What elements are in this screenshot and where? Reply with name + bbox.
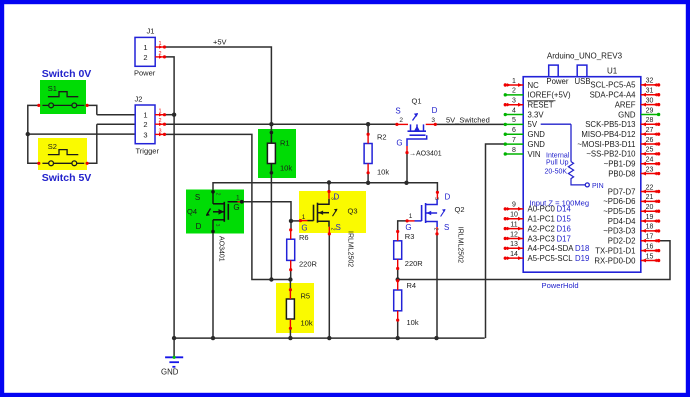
pin 4 3.3V bbox=[505, 114, 523, 116]
switch S2 bbox=[42, 162, 48, 164]
svg-text:29: 29 bbox=[646, 107, 654, 114]
svg-text:2: 2 bbox=[329, 228, 335, 231]
svg-text:Trigger: Trigger bbox=[136, 147, 160, 156]
svg-text:3: 3 bbox=[433, 197, 439, 200]
svg-text:G: G bbox=[396, 139, 402, 148]
resistor R4 bbox=[394, 290, 402, 311]
highlight box R1 bbox=[258, 129, 296, 178]
node plus5V/R1 junction bbox=[269, 122, 273, 126]
pin 22 PD7-D7 bbox=[641, 191, 659, 193]
svg-text:2: 2 bbox=[158, 118, 161, 124]
node R1 bottom trigger junction bbox=[269, 277, 273, 281]
svg-text:1: 1 bbox=[158, 109, 161, 115]
svg-text:3: 3 bbox=[330, 197, 336, 200]
pin 27 MISO-PB4-D12 bbox=[641, 133, 659, 135]
svg-text:2: 2 bbox=[158, 51, 161, 57]
pin 9 A0-PC0 bbox=[505, 208, 523, 210]
wire row3 into J2 left bbox=[28, 133, 135, 135]
svg-text:10k: 10k bbox=[377, 168, 389, 177]
svg-text:Power: Power bbox=[546, 77, 569, 86]
pin 21 ~PD6-D6 bbox=[641, 200, 659, 202]
svg-text:7: 7 bbox=[512, 137, 516, 144]
wire trigger from J2 pin3 to R5/R6 junction bbox=[164, 134, 291, 279]
wire ground symbol drop bbox=[173, 338, 175, 356]
pin 15 RX-PD0-D0 bbox=[641, 259, 659, 261]
pin 23 PB0-D8 bbox=[641, 173, 659, 175]
wire Q2 gate to R3 top bbox=[398, 221, 407, 233]
wire 5V_Switched wire Q1 drain to Arduino pin5 bbox=[435, 123, 505, 125]
svg-text:26: 26 bbox=[646, 137, 654, 144]
wire row1 into J2 left bbox=[97, 114, 135, 116]
op-amp U1 Arduino_UNO_REV3 block bbox=[523, 77, 641, 273]
node switch left / row3 junction bbox=[26, 132, 30, 136]
pin 1 NC bbox=[505, 84, 523, 86]
pin 28 SCK-PB5-D13 bbox=[641, 123, 659, 125]
svg-text:GND: GND bbox=[528, 130, 546, 139]
svg-text:SDA-PC4-A4: SDA-PC4-A4 bbox=[590, 91, 637, 100]
wire PowerHold wire from R3/R4 junction to Arduino pin17 bbox=[398, 241, 670, 280]
svg-text:PowerHold: PowerHold bbox=[542, 281, 579, 290]
pin 5 5V bbox=[505, 123, 523, 125]
pin 19 PD4-D4 bbox=[641, 220, 659, 222]
svg-text:AREF: AREF bbox=[615, 100, 636, 109]
svg-text:2: 2 bbox=[215, 193, 221, 196]
svg-text:3: 3 bbox=[143, 130, 147, 139]
svg-text:Pull Up: Pull Up bbox=[546, 160, 569, 167]
svg-text:A2-PC2: A2-PC2 bbox=[528, 224, 555, 233]
wire R3 bottom to R4 top junction bbox=[397, 269, 399, 283]
pin 25 ~SS-PB2-D10 bbox=[641, 153, 659, 155]
transistor Q2 IRLML2502 bbox=[421, 205, 423, 221]
svg-text:NC: NC bbox=[528, 81, 540, 90]
svg-text:G: G bbox=[405, 223, 411, 232]
svg-text:10k: 10k bbox=[407, 318, 419, 327]
wire R6 top wire bbox=[290, 221, 292, 230]
wire row2 into J2 left bbox=[97, 123, 135, 125]
svg-text:1: 1 bbox=[409, 213, 413, 220]
svg-text:14: 14 bbox=[510, 251, 518, 258]
svg-text:~PD6-D6: ~PD6-D6 bbox=[603, 197, 635, 206]
svg-text:VIN: VIN bbox=[528, 150, 541, 159]
svg-text:D18: D18 bbox=[575, 244, 589, 253]
svg-text:Switch 0V: Switch 0V bbox=[42, 68, 92, 80]
node ground rail left junction bbox=[172, 336, 176, 340]
svg-text:1: 1 bbox=[143, 43, 147, 52]
node Q3 drain rail junction bbox=[327, 180, 331, 184]
node R6 top gates junction bbox=[289, 219, 293, 223]
svg-text:21: 21 bbox=[646, 194, 654, 201]
wire Q3 source to ground rail bbox=[328, 234, 330, 338]
wire Q3 drain wire bbox=[328, 183, 330, 192]
svg-text:A5-PC5-SCL: A5-PC5-SCL bbox=[528, 254, 574, 263]
svg-text:1: 1 bbox=[512, 78, 516, 85]
node Q1 gate rail junction bbox=[404, 181, 408, 185]
svg-text:D: D bbox=[432, 106, 438, 115]
svg-text:Q2: Q2 bbox=[455, 205, 465, 214]
svg-text:USB: USB bbox=[575, 77, 591, 86]
pin 30 AREF bbox=[641, 104, 659, 106]
svg-text:S: S bbox=[195, 193, 200, 202]
svg-text:J1: J1 bbox=[147, 27, 155, 36]
svg-text:10k: 10k bbox=[301, 319, 313, 328]
pin 16 TX-PD1-D1 bbox=[641, 250, 659, 252]
svg-text:PIN: PIN bbox=[592, 183, 604, 190]
svg-text:3: 3 bbox=[214, 224, 220, 227]
svg-text:R3: R3 bbox=[405, 232, 415, 241]
svg-text:3: 3 bbox=[512, 98, 516, 105]
svg-text:24: 24 bbox=[646, 157, 654, 164]
resistor R2 bbox=[364, 144, 372, 164]
svg-text:3: 3 bbox=[431, 117, 435, 124]
highlight box Q4 bbox=[186, 190, 244, 234]
pin 11 A2-PC2 bbox=[505, 228, 523, 230]
transistor Q4 AO3401 bbox=[212, 192, 214, 204]
svg-text:PD7-D7: PD7-D7 bbox=[608, 187, 636, 196]
node R2 bottom rail junction bbox=[366, 181, 370, 185]
svg-text:RESET: RESET bbox=[528, 101, 554, 110]
svg-text:18: 18 bbox=[646, 224, 654, 231]
wire gate-drive rail Q4.S R2 Q1.G to Q2.D bbox=[213, 183, 437, 193]
node R5/R6 trigger junction bbox=[288, 277, 292, 281]
svg-text:D: D bbox=[445, 193, 451, 202]
ground symbol bbox=[165, 356, 183, 358]
node R5 ground junction bbox=[288, 336, 292, 340]
svg-text:30: 30 bbox=[646, 97, 654, 104]
svg-text:~MOSI-PB3-D11: ~MOSI-PB3-D11 bbox=[577, 140, 635, 149]
svg-text:25: 25 bbox=[646, 147, 654, 154]
svg-text:1: 1 bbox=[143, 111, 147, 120]
svg-text:A4-PC4-SDA: A4-PC4-SDA bbox=[528, 244, 575, 253]
svg-text:GND: GND bbox=[161, 368, 179, 377]
internal pull-up resistor inside U1 bbox=[541, 123, 571, 125]
node Q3 source ground junction bbox=[327, 336, 331, 340]
svg-text:Power: Power bbox=[134, 69, 156, 78]
svg-text:Arduino_UNO_REV3: Arduino_UNO_REV3 bbox=[547, 51, 623, 60]
svg-text:GND: GND bbox=[618, 110, 636, 119]
svg-text:S: S bbox=[336, 223, 341, 232]
resistor R3 bbox=[394, 241, 402, 259]
wire R2 bottom wire bbox=[367, 172, 369, 183]
svg-text:11: 11 bbox=[510, 221, 517, 228]
pin 20 ~PD5-D5 bbox=[641, 210, 659, 212]
wire plus5V row to R2 and Q1 source bbox=[165, 123, 397, 125]
svg-text:16: 16 bbox=[646, 243, 654, 250]
svg-text:2: 2 bbox=[143, 53, 147, 62]
svg-text:D16: D16 bbox=[557, 224, 571, 233]
connector J1 bbox=[135, 37, 155, 66]
pin 17 PD2-D2 bbox=[641, 240, 659, 242]
highlight box Q3 bbox=[299, 191, 366, 233]
node R2 top junction bbox=[366, 122, 370, 126]
svg-text:10: 10 bbox=[510, 212, 518, 219]
svg-text:R5: R5 bbox=[301, 292, 311, 301]
pin 6 GND bbox=[505, 133, 523, 135]
svg-text:23: 23 bbox=[646, 166, 654, 173]
wire GND vertical from J1 pin2 down to bottom rail bbox=[165, 57, 175, 338]
svg-text:S: S bbox=[444, 223, 449, 232]
svg-text:220R: 220R bbox=[405, 259, 424, 268]
wire ground rail bbox=[174, 337, 485, 339]
wire switch left common bbox=[28, 105, 39, 163]
svg-text:8: 8 bbox=[512, 147, 516, 154]
svg-text:U1: U1 bbox=[607, 66, 618, 75]
svg-text:Q4: Q4 bbox=[187, 207, 197, 216]
svg-text:R4: R4 bbox=[407, 281, 417, 290]
svg-text:D: D bbox=[196, 222, 202, 231]
wire J2 pin1 to GND vertical bbox=[165, 114, 175, 116]
svg-text:15: 15 bbox=[646, 253, 654, 260]
wire Arduino pin7 GND down to ground rail bbox=[486, 144, 506, 338]
svg-text:5: 5 bbox=[512, 117, 516, 124]
svg-text:RX-PD0-D0: RX-PD0-D0 bbox=[594, 256, 636, 265]
svg-text:SCL-PC5-A5: SCL-PC5-A5 bbox=[590, 81, 636, 90]
svg-text:220R: 220R bbox=[299, 260, 318, 269]
pin 18 ~PD3-D3 bbox=[641, 230, 659, 232]
svg-text:AO3401: AO3401 bbox=[218, 236, 225, 262]
wire R2 top wire bbox=[367, 124, 369, 134]
svg-text:S: S bbox=[395, 107, 400, 116]
svg-text:J2: J2 bbox=[135, 95, 143, 104]
svg-text:A1-PC1: A1-PC1 bbox=[528, 215, 555, 224]
svg-text:3: 3 bbox=[158, 128, 161, 134]
transistor Q1 AO3401 bbox=[397, 123, 408, 125]
wire R1 top stub wire bbox=[270, 124, 272, 143]
wire R5 top wire bbox=[289, 280, 291, 290]
svg-text:27: 27 bbox=[646, 127, 654, 134]
node J2.1/GND junction bbox=[172, 113, 176, 117]
svg-text:1: 1 bbox=[302, 214, 306, 221]
node R3/R4 PowerHold junction bbox=[396, 277, 400, 281]
wire Q4 drain to ground rail bbox=[212, 232, 214, 339]
svg-text:2: 2 bbox=[143, 120, 147, 129]
wire plus5V rail from J1 pin1 bbox=[165, 47, 272, 124]
svg-text:32: 32 bbox=[646, 78, 654, 85]
svg-text:19: 19 bbox=[646, 214, 654, 221]
highlight box R5 bbox=[276, 283, 314, 333]
svg-text:D17: D17 bbox=[557, 234, 571, 243]
pin 13 A4-PC4-SDA bbox=[505, 247, 523, 249]
svg-text:Input Z = 100Meg: Input Z = 100Meg bbox=[529, 198, 589, 207]
node Q4 drain ground junction bbox=[211, 336, 215, 340]
pin 2 IOREF(+5V) bbox=[505, 94, 523, 96]
svg-text:5V: 5V bbox=[528, 120, 538, 129]
svg-text:~PB1-D9: ~PB1-D9 bbox=[604, 160, 636, 169]
resistor R6 bbox=[287, 239, 295, 260]
svg-text:IOREF(+5V): IOREF(+5V) bbox=[528, 91, 572, 100]
wire Q3 gate to R6 top bbox=[291, 220, 301, 222]
wire R4 bottom wire bbox=[397, 320, 399, 338]
svg-text:2: 2 bbox=[433, 228, 439, 231]
wire Q1 gate down to rail bbox=[406, 153, 408, 183]
svg-text:~PD5-D5: ~PD5-D5 bbox=[603, 207, 636, 216]
svg-text:S1: S1 bbox=[48, 84, 57, 93]
svg-text:PB0-D8: PB0-D8 bbox=[608, 169, 635, 178]
pin 29 GND bbox=[641, 113, 659, 115]
wire S2 right to row2 bbox=[87, 124, 97, 163]
svg-text:2: 2 bbox=[399, 117, 403, 124]
pin 26 ~MOSI-PB3-D11 bbox=[641, 143, 659, 145]
svg-text:IRLML2502: IRLML2502 bbox=[457, 227, 464, 263]
svg-text:G: G bbox=[301, 224, 307, 233]
svg-text:20: 20 bbox=[646, 204, 654, 211]
svg-text:5V_Switched: 5V_Switched bbox=[446, 116, 490, 125]
svg-text:~PD3-D3: ~PD3-D3 bbox=[603, 227, 635, 236]
svg-text:22: 22 bbox=[646, 184, 654, 191]
svg-text:12: 12 bbox=[510, 231, 518, 238]
pin 31 SDA-PC4-A4 bbox=[641, 94, 659, 96]
svg-text:A3-PC3: A3-PC3 bbox=[528, 234, 555, 243]
svg-text:R6: R6 bbox=[299, 233, 309, 242]
svg-text:→AO3401: →AO3401 bbox=[409, 151, 442, 158]
wire R6 bottom wire bbox=[290, 269, 292, 280]
pin 10 A1-PC1 bbox=[505, 218, 523, 220]
svg-text:R1: R1 bbox=[280, 139, 290, 148]
pin 3 RESET bbox=[505, 104, 523, 106]
pin 8 VIN bbox=[505, 153, 523, 155]
svg-text:Switch 5V: Switch 5V bbox=[42, 172, 92, 184]
svg-text:31: 31 bbox=[646, 88, 654, 95]
svg-text:2: 2 bbox=[512, 88, 516, 95]
svg-text:~SS-PB2-D10: ~SS-PB2-D10 bbox=[586, 150, 636, 159]
svg-text:D15: D15 bbox=[557, 215, 572, 224]
svg-text:Internal: Internal bbox=[546, 153, 570, 160]
svg-text:6: 6 bbox=[512, 127, 516, 134]
svg-text:20-50K: 20-50K bbox=[545, 168, 568, 175]
resistor R1 bbox=[267, 143, 275, 163]
pin 24 ~PB1-D9 bbox=[641, 163, 659, 165]
highlight box switch S2 bbox=[38, 138, 87, 170]
pin 7 GND bbox=[505, 143, 523, 145]
node Q2 source ground junction bbox=[434, 336, 438, 340]
svg-text:PD2-D2: PD2-D2 bbox=[608, 237, 636, 246]
USB and Power tabs bbox=[549, 65, 559, 77]
svg-text:SCK-PB5-D13: SCK-PB5-D13 bbox=[585, 120, 635, 129]
svg-text:GND: GND bbox=[528, 140, 546, 149]
wire S1 right to row1 bbox=[87, 105, 97, 114]
highlight box switch S1 bbox=[40, 80, 86, 114]
connector J2 bbox=[135, 105, 155, 144]
svg-text:28: 28 bbox=[646, 117, 654, 124]
svg-text:S2: S2 bbox=[48, 142, 57, 151]
svg-text:13: 13 bbox=[510, 241, 518, 248]
svg-text:9: 9 bbox=[512, 202, 516, 209]
svg-text:17: 17 bbox=[646, 234, 654, 241]
svg-text:Q1: Q1 bbox=[411, 96, 421, 105]
wire R1 bottom to trigger junction bbox=[270, 164, 272, 280]
svg-text:TX-PD1-D1: TX-PD1-D1 bbox=[595, 246, 635, 255]
svg-text:3.3V: 3.3V bbox=[528, 110, 545, 119]
node R4 ground junction bbox=[396, 336, 400, 340]
transistor Q3 IRLML2502 bbox=[313, 205, 315, 221]
pin 14 A5-PC5-SCL bbox=[505, 257, 523, 259]
wire Q4 gate over to R6 top bbox=[242, 202, 291, 221]
svg-text:1: 1 bbox=[236, 194, 240, 201]
wire R5 bottom wire bbox=[289, 328, 291, 338]
pin 32 SCL-PC5-A5 bbox=[641, 84, 659, 86]
pin 12 A3-PC3 bbox=[505, 237, 523, 239]
svg-text:10k: 10k bbox=[280, 164, 292, 173]
svg-text:1: 1 bbox=[158, 41, 161, 47]
resistor R5 bbox=[286, 299, 294, 319]
svg-text:D19: D19 bbox=[575, 254, 589, 263]
svg-text:MISO-PB4-D12: MISO-PB4-D12 bbox=[581, 130, 635, 139]
svg-text:4: 4 bbox=[512, 107, 516, 114]
switch S1 bbox=[42, 104, 48, 106]
svg-text:Q3: Q3 bbox=[348, 207, 358, 216]
svg-text:IRLML2502: IRLML2502 bbox=[347, 231, 354, 267]
svg-text:+5V: +5V bbox=[213, 38, 227, 47]
svg-text:G: G bbox=[233, 203, 239, 212]
svg-text:PD4-D4: PD4-D4 bbox=[608, 217, 636, 226]
wire Q2 source to ground rail bbox=[436, 234, 438, 338]
svg-text:R2: R2 bbox=[377, 133, 387, 142]
